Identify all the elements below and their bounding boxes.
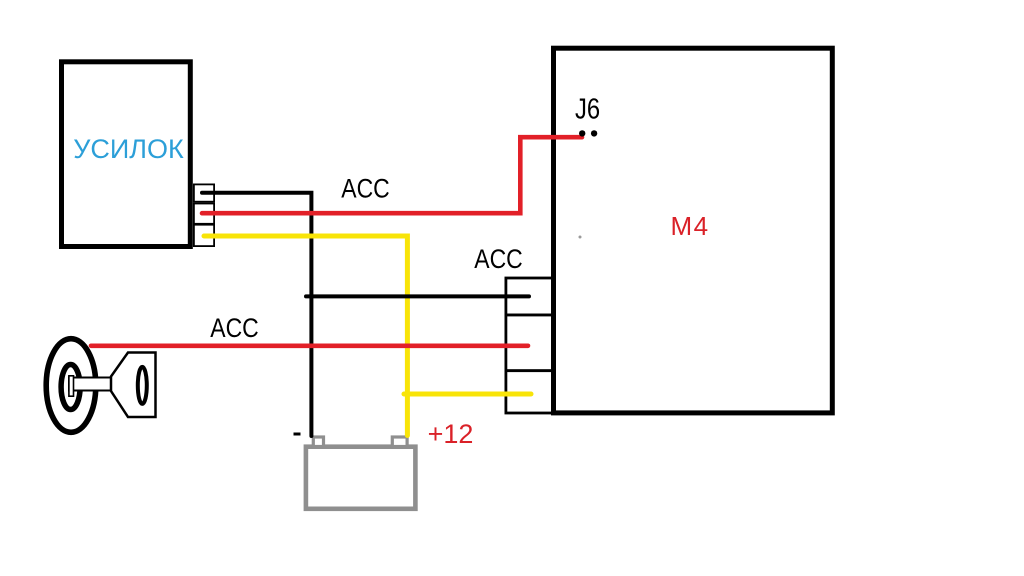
amplifier box УСИЛОК <box>62 62 191 247</box>
key blade <box>69 378 111 391</box>
stray gray speck <box>579 236 582 239</box>
J6 pin dots <box>579 130 585 136</box>
key head <box>111 353 156 418</box>
wire red ACC (amp to J6) <box>202 137 582 213</box>
wire black ACC (amp to M4 / battery minus) <box>202 193 311 436</box>
wire yellow branch to connector <box>404 392 531 397</box>
battery positive terminal <box>392 437 407 447</box>
svg-text:УСИЛОК: УСИЛОК <box>73 134 184 164</box>
svg-text:J6: J6 <box>575 92 600 125</box>
svg-text:ACC: ACC <box>210 313 258 343</box>
connector ACC on M4 <box>506 278 554 413</box>
ignition key <box>46 339 155 433</box>
head unit box M4 <box>554 48 833 413</box>
svg-text:ACC: ACC <box>341 174 389 204</box>
key inner ring <box>61 365 80 410</box>
key blade end <box>69 376 74 396</box>
svg-text:M4: M4 <box>670 211 709 241</box>
wire yellow +12 (amp to battery plus) <box>204 236 407 436</box>
connector pins on amplifier <box>194 184 214 246</box>
battery negative terminal <box>313 437 323 447</box>
wire black branch to connector <box>306 294 529 298</box>
svg-text:ACC: ACC <box>474 244 522 274</box>
label minus <box>294 433 301 436</box>
battery <box>306 447 416 509</box>
svg-text:+12: +12 <box>428 419 474 449</box>
wire red ACC (key to connector) <box>91 343 528 348</box>
key head hole <box>138 367 147 404</box>
key outer ring <box>46 339 96 433</box>
